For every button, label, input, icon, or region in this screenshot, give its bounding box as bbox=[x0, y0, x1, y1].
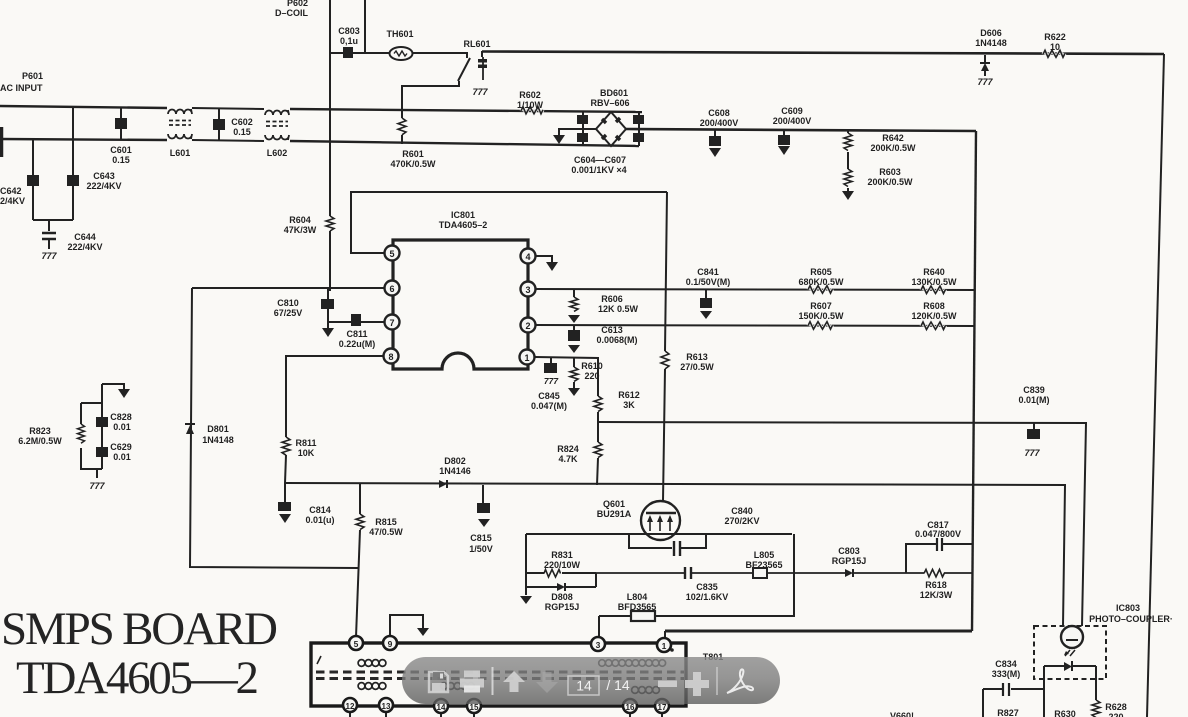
capacitor C644 bbox=[42, 232, 103, 252]
wire snubber row y573 to right bbox=[596, 572, 906, 574]
wire right page edge vertical bbox=[1147, 54, 1164, 717]
T601 pin 16 bbox=[623, 699, 637, 717]
IC U601 TDA4605 outline bbox=[393, 240, 528, 369]
capacitor C601 bbox=[110, 107, 132, 165]
zoom out icon bbox=[658, 681, 677, 688]
T601 polarity dot pin1 bbox=[670, 648, 674, 652]
T601 primary winding left top bbox=[358, 660, 386, 667]
pin 5 bbox=[385, 246, 400, 261]
svg-text:14: 14 bbox=[437, 703, 446, 712]
svg-text:R628: R628 bbox=[1105, 702, 1127, 712]
wire pin2 row bbox=[536, 325, 975, 326]
pin 8 bbox=[384, 349, 399, 364]
capacitor C645 bbox=[531, 358, 567, 411]
svg-text:C834: C834 bbox=[995, 659, 1017, 669]
save icon bbox=[429, 672, 448, 692]
ground arrow pin4 bbox=[546, 262, 558, 271]
svg-text:IC803: IC803 bbox=[1116, 603, 1140, 613]
inductor L605 bbox=[745, 550, 782, 578]
resistor R607 bbox=[798, 301, 844, 329]
page number box bbox=[568, 676, 599, 695]
wire top L602 to bridge bbox=[290, 109, 642, 112]
relay RL601 bbox=[458, 39, 491, 97]
T601 pin 13 bbox=[379, 698, 393, 717]
svg-text:14: 14 bbox=[576, 678, 592, 694]
capacitor C611 bbox=[339, 314, 376, 349]
wire D-coil vertical left bbox=[329, 0, 331, 195]
capacitor C609 bbox=[773, 106, 812, 155]
svg-text:5: 5 bbox=[354, 639, 359, 649]
T601 polarity slash bbox=[317, 656, 321, 664]
resistor R815 bbox=[356, 484, 403, 637]
resistor R622 bbox=[1043, 32, 1066, 57]
wire row y422 bbox=[598, 422, 1086, 626]
wire bottom L602 to bridge bbox=[290, 141, 639, 146]
wire pin8 row bbox=[286, 356, 383, 437]
resistor R603 bbox=[842, 167, 913, 200]
resistor R605 bbox=[798, 267, 844, 293]
T601 pin 15 bbox=[467, 699, 481, 717]
capacitor C640 snubber bbox=[629, 506, 760, 556]
edge mark left bbox=[0, 127, 3, 157]
svg-text:1: 1 bbox=[662, 641, 667, 651]
svg-text:15: 15 bbox=[470, 703, 479, 712]
resistor R824 bbox=[557, 422, 602, 485]
wire pin1 row bbox=[535, 357, 598, 396]
diode D602 bbox=[439, 456, 471, 488]
wire L604 row bbox=[599, 534, 794, 616]
T601 pin 1 bbox=[657, 638, 671, 652]
svg-text:333(M): 333(M) bbox=[992, 669, 1021, 679]
LED diode IC803 bbox=[1044, 661, 1096, 671]
resistor R610 bbox=[568, 358, 603, 396]
wire bridge left DC to ground bbox=[559, 129, 596, 135]
svg-text:PHOTO–COUPLER·: PHOTO–COUPLER· bbox=[1089, 614, 1173, 624]
wire C642-C643 bottom join bbox=[33, 220, 73, 231]
capacitor C608 bbox=[700, 108, 739, 157]
inductor L604 bbox=[618, 592, 657, 621]
diode D808 bbox=[520, 573, 596, 612]
wire feedback row y484 bbox=[285, 483, 1065, 626]
pin 3 bbox=[521, 282, 536, 297]
svg-text:R827: R827 bbox=[997, 708, 1019, 717]
capacitor C603 bbox=[338, 26, 360, 58]
wire emitter down to R831 bbox=[525, 534, 527, 573]
capacitor C615 bbox=[469, 485, 493, 554]
T601 pin 14 bbox=[434, 699, 448, 717]
transistor Q601 bbox=[597, 499, 680, 540]
resistor R640 bbox=[911, 267, 957, 294]
svg-text:12: 12 bbox=[346, 702, 355, 711]
pin 2 bbox=[521, 318, 536, 333]
SCHEMATIC CONTENT bbox=[0, 106, 642, 157]
svg-text:17: 17 bbox=[658, 703, 667, 712]
resistor R618 bbox=[906, 569, 973, 600]
wire Q601 emitter row bbox=[526, 533, 792, 535]
bridge rectifier BD601 bbox=[571, 88, 644, 175]
T601 pin 5 bbox=[349, 636, 363, 650]
node junction marks bbox=[0, 0, 1164, 291]
resistor R606 bbox=[536, 289, 975, 323]
svg-text:R630: R630 bbox=[1054, 709, 1076, 717]
svg-text:V660!: V660! bbox=[890, 711, 914, 717]
resistor R602 bbox=[517, 90, 544, 114]
pin 7 bbox=[385, 315, 400, 330]
wire pin3 riser bbox=[598, 616, 600, 638]
T601 pin 9 bbox=[383, 636, 397, 650]
diode D606 bbox=[975, 28, 1007, 87]
thermistor TH601 bbox=[390, 47, 413, 60]
wire TH601 to relay bbox=[413, 53, 468, 58]
up arrow icon bbox=[503, 671, 525, 692]
svg-text:TDA4605—2: TDA4605—2 bbox=[16, 652, 259, 704]
T601 pin 3 bbox=[591, 637, 605, 651]
resistor R612 bbox=[594, 390, 640, 422]
inductor L602 bbox=[265, 110, 289, 140]
capacitor C642 bbox=[0, 140, 39, 220]
diode D801 bbox=[185, 424, 234, 445]
capacitor C613 bbox=[568, 325, 638, 353]
T601 core dashes bbox=[316, 672, 684, 679]
T601 pin 17 bbox=[655, 699, 669, 717]
resistor R601 bbox=[390, 110, 436, 169]
T601 secondary winding mid bottom bbox=[441, 683, 475, 690]
inductor L601 bbox=[168, 109, 192, 139]
capacitor C643 bbox=[67, 106, 122, 220]
T601 pin 12 bbox=[343, 698, 357, 717]
capacitor C639 bbox=[1018, 385, 1049, 458]
wire long vertical x665 down to Q601 bbox=[663, 192, 667, 501]
wire primary return y631 bbox=[665, 630, 972, 633]
adobe reader logo bbox=[727, 669, 753, 693]
resistor R613 bbox=[661, 351, 714, 372]
resistor R604 bbox=[284, 195, 334, 291]
svg-text:220: 220 bbox=[1108, 712, 1123, 717]
wire AC top line bbox=[0, 106, 167, 108]
ground arrow left of bridge bbox=[553, 135, 565, 144]
pin 6 bbox=[385, 281, 400, 296]
wire top between L601 and L602 bbox=[192, 108, 264, 109]
wire DC bus bbox=[626, 129, 976, 131]
print icon bbox=[460, 671, 484, 693]
wire pin9 ground bbox=[390, 615, 423, 637]
capacitor C617 bbox=[906, 520, 973, 573]
separator bbox=[492, 667, 494, 695]
capacitor C634 bbox=[983, 659, 1044, 717]
capacitor C635 bbox=[685, 567, 728, 602]
pin 4 bbox=[521, 249, 536, 264]
wire LED right leg bbox=[1095, 666, 1097, 700]
photo-coupler IC803 dashed box bbox=[1034, 626, 1106, 679]
LED arrows bbox=[1065, 650, 1075, 656]
capacitor C614 bbox=[278, 483, 335, 525]
resistor R831 bbox=[526, 550, 596, 577]
diode D803 bbox=[832, 546, 867, 577]
wire relay blade down to main line bbox=[402, 81, 459, 110]
resistor R811 bbox=[282, 437, 317, 483]
resistor R608 bbox=[911, 301, 957, 330]
wire DC bus vertical right bbox=[972, 131, 976, 631]
svg-text:3: 3 bbox=[596, 640, 601, 650]
wire C603 to TH601 bbox=[330, 52, 390, 54]
resistor R642 bbox=[844, 131, 916, 167]
wire pin1 riser bbox=[664, 631, 666, 639]
chassis ground pin9 bbox=[417, 628, 429, 636]
svg-text:SMPS BOARD: SMPS BOARD bbox=[1, 603, 278, 655]
svg-text:9: 9 bbox=[388, 639, 393, 649]
down arrow icon bbox=[536, 672, 558, 693]
capacitor C602 bbox=[213, 109, 253, 141]
wire D-coil vertical right bbox=[364, 0, 366, 53]
T601 secondary winding left bottom bbox=[358, 683, 386, 690]
resistor R628 bbox=[1092, 700, 1127, 717]
pin 1 bbox=[520, 350, 535, 365]
node R623 C628 C629 subcircuit bbox=[18, 384, 132, 491]
wire bottom between L601 and L602 bbox=[192, 140, 264, 141]
wire left box edge bbox=[190, 288, 358, 568]
wire pin7 row bbox=[328, 321, 384, 323]
T601 primary winding right top bbox=[599, 660, 666, 667]
T601 secondary winding right bottom bbox=[632, 687, 660, 694]
photo transistor circle bbox=[1061, 626, 1083, 648]
wire AC bottom line bbox=[0, 139, 167, 140]
wire pin6 row bbox=[192, 287, 384, 289]
svg-text:13: 13 bbox=[382, 702, 391, 711]
svg-text:16: 16 bbox=[626, 703, 635, 712]
capacitor C641 bbox=[686, 267, 731, 319]
capacitor C610 bbox=[274, 288, 334, 337]
zoom in icon bbox=[685, 672, 709, 696]
wire pin4 to ground bbox=[536, 256, 552, 262]
transformer T601 box bbox=[311, 643, 686, 706]
separator bbox=[716, 667, 718, 695]
wire LED left leg bbox=[1043, 666, 1045, 717]
wire relay top line to right edge bbox=[482, 52, 1164, 55]
svg-text:/ 14: / 14 bbox=[606, 677, 630, 693]
wire pin5 to top rail bbox=[351, 192, 667, 253]
acrobat toolbar bbox=[402, 657, 780, 704]
